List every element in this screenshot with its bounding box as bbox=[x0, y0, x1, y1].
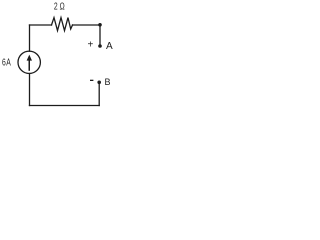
wire top-right horizontal bbox=[73, 24, 101, 26]
svg-text:6A: 6A bbox=[2, 56, 11, 68]
wire left vertical upper bbox=[29, 25, 31, 51]
junction dot top-right bbox=[98, 23, 102, 27]
current source arrow bbox=[27, 55, 32, 71]
resistor R (2 ohm) bbox=[52, 18, 73, 31]
label - (terminal B polarity) bbox=[90, 80, 93, 81]
node B terminal dot bbox=[97, 81, 101, 85]
svg-text:B: B bbox=[105, 77, 111, 87]
node A terminal dot bbox=[98, 44, 102, 48]
wire terminal B vertical bbox=[98, 83, 100, 106]
svg-text:+: + bbox=[88, 40, 94, 51]
svg-text:A: A bbox=[106, 41, 113, 52]
wire right vertical to terminal A bbox=[99, 25, 101, 45]
wire top-left horizontal bbox=[30, 24, 52, 26]
current source I1 circle bbox=[18, 51, 40, 73]
svg-text:2 Ω: 2 Ω bbox=[54, 0, 65, 12]
wire left vertical lower bbox=[29, 74, 31, 106]
wire bottom horizontal bbox=[30, 105, 100, 107]
